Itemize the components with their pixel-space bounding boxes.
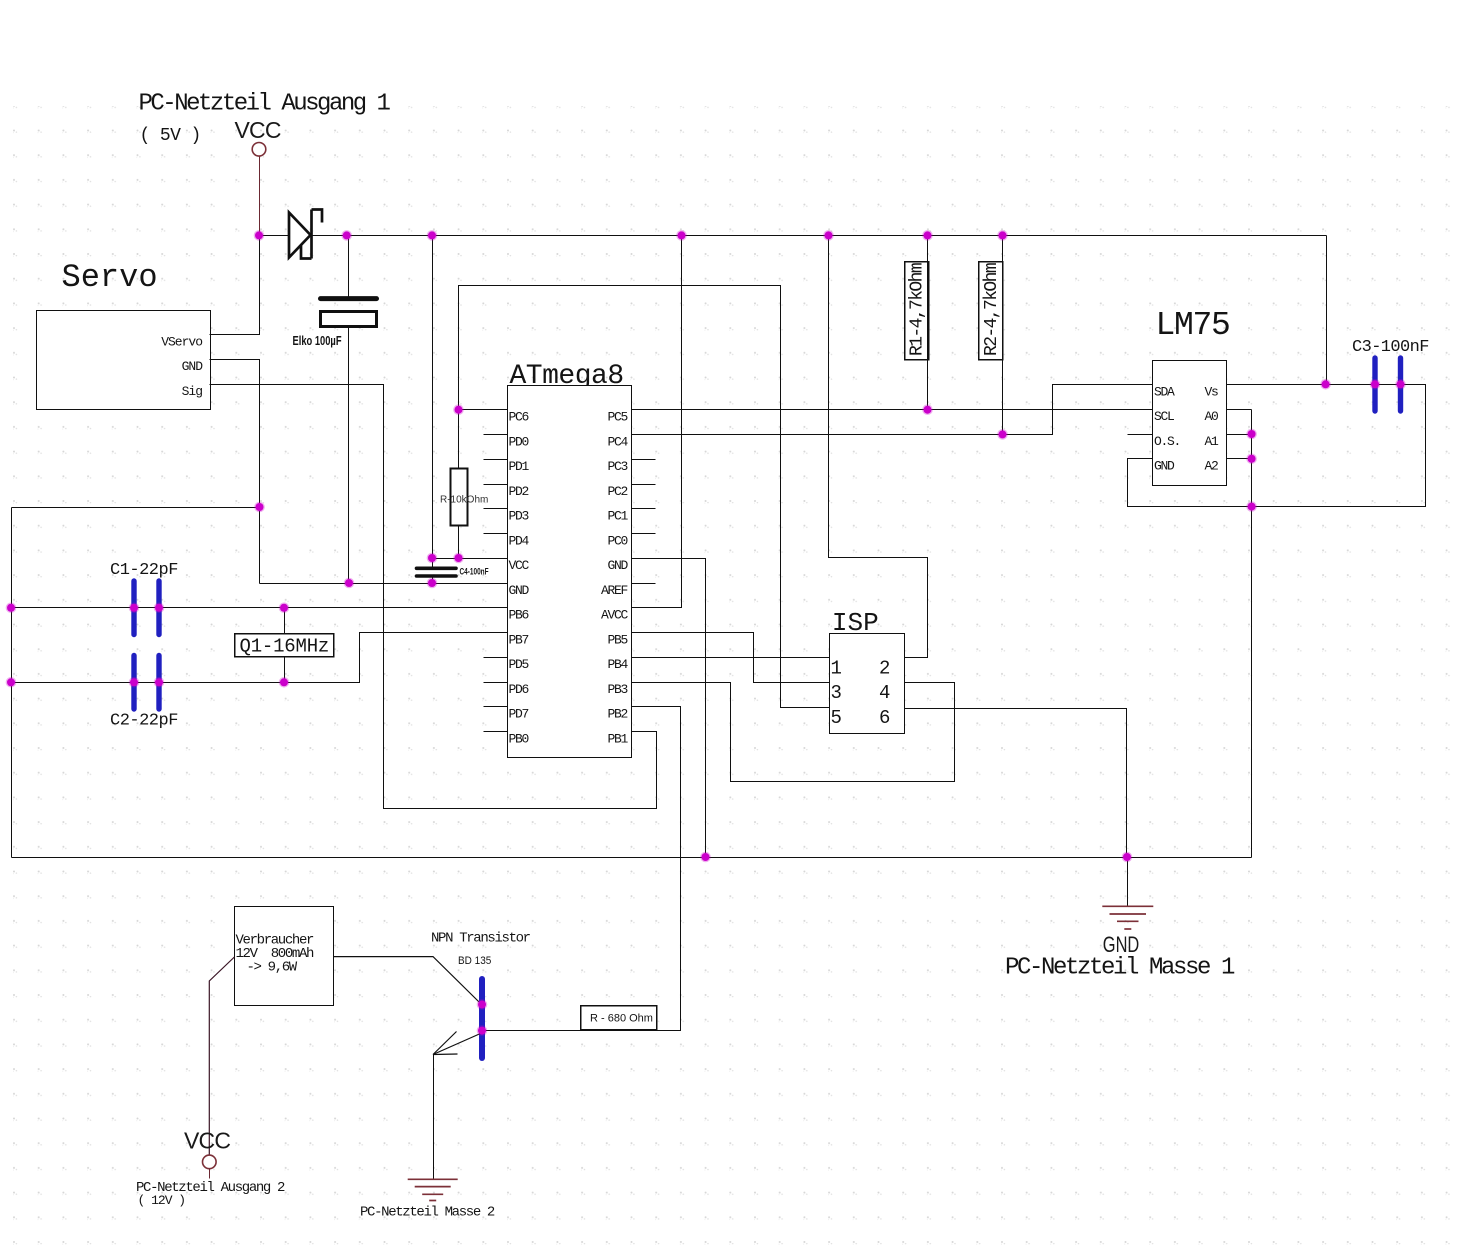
svg-text:6: 6 (879, 707, 890, 729)
pin PB5 stub (U1 right) (632, 632, 656, 634)
svg-text:PD7: PD7 (509, 707, 529, 722)
svg-text:SCL: SCL (1154, 409, 1174, 424)
wire LM75 GND loop through C3 (1128, 385, 1426, 507)
pin PB0 stub (U1 left) (484, 731, 508, 733)
junction A-chain/GND-loop (1246, 501, 1257, 512)
svg-text:PC1: PC1 (607, 509, 628, 524)
svg-text:PD2: PD2 (509, 484, 529, 499)
wire Verbraucher left to VCC2 (209, 957, 234, 1155)
svg-text:O.S.: O.S. (1154, 434, 1180, 449)
junction C2 left plate (129, 677, 140, 688)
junction AVCC/rail (676, 230, 687, 241)
svg-text:PD0: PD0 (509, 434, 529, 449)
svg-text:PB7: PB7 (509, 632, 529, 647)
svg-text:GND: GND (509, 583, 530, 598)
svg-text:R1-4,7kOhm: R1-4,7kOhm (908, 263, 928, 356)
svg-text:Servo: Servo (62, 259, 158, 296)
svg-text:2: 2 (879, 657, 890, 679)
wire SCL net PC5 to LM75 (632, 409, 1153, 411)
transistor Q1 emitter (433, 1033, 482, 1055)
svg-text:PC-Netzteil Ausgang 1: PC-Netzteil Ausgang 1 (139, 91, 391, 118)
wire ISP pin6 to GND rail (905, 709, 1127, 858)
pin PC1 stub (U1 right) (632, 508, 656, 510)
capacitor C2-22pF plates (131, 656, 136, 710)
wire PB5 to ISP pin3 (632, 633, 830, 683)
pin PC0 stub (U1 right) (632, 533, 656, 535)
junction U1-GND/rail (700, 852, 711, 863)
junction C3 right plate (1395, 379, 1406, 390)
svg-text:C2-22pF: C2-22pF (110, 712, 178, 731)
ground GND1 stub (1127, 858, 1129, 907)
wire SDA net PC4 to LM75 (632, 385, 1153, 435)
svg-text:C1-22pF: C1-22pF (110, 561, 178, 580)
svg-text:R2-4,7kOhm: R2-4,7kOhm (982, 263, 1002, 356)
wire emitter to GND2 (433, 1055, 435, 1179)
wire VServo to VCC rail (210, 236, 260, 335)
svg-text:PC-Netzteil Masse 2: PC-Netzteil Masse 2 (360, 1204, 495, 1220)
pin PC2 stub (U1 right) (632, 484, 656, 486)
junction R1/SCL (922, 404, 933, 415)
svg-text:LM75: LM75 (1156, 307, 1230, 344)
svg-text:PC-Netzteil Masse 1: PC-Netzteil Masse 1 (1005, 955, 1235, 982)
pin AVCC stub (U1 right) (632, 607, 656, 609)
wire VCC1 pin stub (259, 157, 261, 236)
pin A1 stub (U2) (1227, 434, 1252, 436)
power VCC2 circle (203, 1155, 217, 1169)
wire crystal top lead (284, 608, 286, 634)
svg-text:VCC: VCC (509, 558, 530, 573)
wire AVCC to VCC rail (656, 236, 682, 608)
power VCC2 pin stub (209, 1169, 211, 1179)
svg-text:Elko 100µF: Elko 100µF (293, 335, 342, 349)
pin PD7 stub (U1 left) (484, 706, 508, 708)
svg-text:-> 9,6W: -> 9,6W (247, 959, 298, 975)
wire PC6 net vertical (458, 410, 460, 469)
svg-text:AREF: AREF (601, 583, 628, 598)
svg-text:PB6: PB6 (509, 608, 529, 623)
svg-text:A0: A0 (1204, 409, 1218, 424)
pin PC4 stub (U1 right) (632, 434, 656, 436)
wire servo GND net (210, 360, 260, 584)
resistor R1 label frame (905, 262, 929, 360)
junction PC6/R-10k (453, 404, 464, 415)
svg-text:PC2: PC2 (607, 484, 627, 499)
svg-text:Sig: Sig (182, 384, 203, 399)
junction Elko-/GND line (344, 578, 355, 589)
junction R1/rail (922, 230, 933, 241)
svg-text:GND: GND (607, 558, 628, 573)
junction R2/SDA (997, 429, 1008, 440)
junction Q1 base (477, 1025, 488, 1036)
junction VCCrail/Vs (1320, 379, 1331, 390)
pin O.S. stub (U2) (1128, 434, 1153, 436)
wire PB1 to servo Sig (210, 385, 657, 809)
junction Elko/rail (341, 230, 352, 241)
pin A2 stub (U2) (1227, 458, 1252, 460)
resistor R2 label frame (979, 262, 1003, 360)
svg-text:PB3: PB3 (607, 682, 627, 697)
resistor R1 wire (927, 236, 929, 410)
pin PD2 stub (U1 left) (484, 484, 508, 486)
svg-text:SDA: SDA (1154, 384, 1175, 399)
IC U2 LM75 box (1153, 361, 1227, 486)
pin PC3 stub (U1 right) (632, 459, 656, 461)
pin PD1 stub (U1 left) (484, 459, 508, 461)
pin PB2 stub (U1 right) (632, 706, 656, 708)
pin PD4 stub (U1 left) (484, 533, 508, 535)
pin PB6 stub (U1 left) (484, 607, 508, 609)
pin AREF stub (U1 right) (632, 583, 656, 585)
svg-text:NPN Transistor: NPN Transistor (431, 930, 531, 946)
svg-text:PD1: PD1 (509, 459, 530, 474)
wire R-10kOhm bottom (458, 526, 460, 559)
pin GND stub (U1 left) (484, 583, 508, 585)
wire XTAL2 net (C2 line) (12, 633, 508, 683)
svg-text:AVCC: AVCC (601, 608, 629, 623)
wire diode anode (260, 235, 290, 237)
junction C4+/VCC line (427, 553, 438, 564)
capacitor C1-22pF plates (131, 581, 136, 635)
pin PD5 stub (U1 left) (484, 657, 508, 659)
svg-text:PB2: PB2 (607, 707, 627, 722)
svg-text:GND: GND (1154, 459, 1175, 474)
junction left-bus/XTAL1 (6, 602, 17, 613)
svg-text:C3-100nF: C3-100nF (1352, 338, 1429, 357)
svg-text:C4-100nF: C4-100nF (460, 566, 489, 577)
load module Verbraucher box (235, 907, 334, 1006)
svg-text:A2: A2 (1204, 459, 1218, 474)
ground GND2 symbol (408, 1179, 458, 1200)
wire PB2 to transistor base (483, 707, 681, 1031)
crystal Q1-16MHz box (235, 634, 334, 657)
junction A2 (1246, 453, 1257, 464)
capacitor C4 top lead (432, 559, 434, 567)
svg-text:Q1-16MHz: Q1-16MHz (240, 636, 330, 658)
wire XTAL1 net (C1 line) (12, 607, 508, 609)
wire Elko top (348, 236, 350, 297)
pin PB3 stub (U1 right) (632, 682, 656, 684)
pin PC6 stub (U1 left) (484, 409, 508, 411)
svg-text:4: 4 (879, 682, 890, 704)
svg-text:PC0: PC0 (607, 533, 627, 548)
capacitor C4 bottom lead (432, 578, 434, 584)
svg-text:5: 5 (831, 707, 842, 729)
svg-text:R-10kOhm: R-10kOhm (440, 494, 488, 505)
svg-text:A1: A1 (1204, 434, 1219, 449)
junction VCC-branch/rail (427, 230, 438, 241)
power VCC1 circle (252, 143, 266, 157)
resistor R-10kOhm body (451, 469, 468, 526)
wire collector from Verbraucher (334, 957, 482, 1005)
wire PC6 pin connect (459, 409, 508, 411)
ground GND1 symbol (1102, 906, 1153, 929)
junction C4-/GND line (427, 578, 438, 589)
pin GND stub (U1 right) (632, 558, 656, 560)
junction C1 left plate (129, 602, 140, 613)
pin PB4 stub (U1 right) (632, 657, 656, 659)
capacitor C4-100nF (417, 566, 457, 570)
svg-text:GND: GND (182, 359, 204, 374)
junction C3 left plate (1370, 379, 1381, 390)
wire GND rail (12, 857, 1252, 859)
capacitor C3-100nF plates (1372, 358, 1377, 411)
junction servoGND/left-bus (254, 502, 265, 513)
resistor R-680 box (581, 1006, 657, 1030)
svg-text:PC4: PC4 (607, 434, 628, 449)
junction ISP2/rail (823, 230, 834, 241)
svg-text:PB0: PB0 (509, 731, 529, 746)
IC U1 ATmega8 box (508, 386, 632, 758)
junction Q1 collector (477, 999, 488, 1010)
wire VCC rail (312, 235, 1327, 237)
svg-text:1: 1 (831, 657, 842, 679)
wire Elko bottom to GND line (348, 326, 350, 584)
diode D1 (Schottky) (289, 210, 322, 259)
svg-text:PD4: PD4 (509, 533, 530, 548)
wire PB3 to ISP pin4 (632, 683, 955, 782)
wire U1 GND right to rail (632, 559, 706, 858)
pin PB1 stub (U1 right) (632, 731, 656, 733)
svg-text:VServo: VServo (161, 334, 202, 349)
capacitor Elko 100uF (electrolytic) (321, 296, 377, 301)
wire PB4 to ISP pin1 (632, 657, 830, 659)
wire GND branch to left bus (12, 507, 260, 509)
junction R-10k/VCC line (453, 553, 464, 564)
wire crystal bottom lead (284, 657, 286, 683)
svg-text:PB4: PB4 (607, 657, 628, 672)
junction crystal/XTAL2 (279, 677, 290, 688)
junction VCC1/rail (254, 230, 265, 241)
junction C1 right plate (154, 602, 165, 613)
junction R2/rail (997, 230, 1008, 241)
wire ISP pin2 VCC net (829, 236, 928, 658)
svg-text:PC5: PC5 (607, 410, 627, 425)
junction crystal/XTAL1 (279, 602, 290, 613)
pin PD0 stub (U1 left) (484, 434, 508, 436)
svg-text:3: 3 (831, 682, 842, 704)
pin VCC stub (U1 left) (484, 558, 508, 560)
wire A0 A1 A2 chain to GND rail (1227, 409, 1252, 411)
svg-text:PD3: PD3 (509, 509, 529, 524)
wire RESET net to ISP pin5 (459, 286, 830, 708)
svg-text:Vs: Vs (1204, 384, 1218, 399)
junction GND1/rail (1122, 852, 1133, 863)
svg-text:BD 135: BD 135 (458, 954, 491, 967)
junction left-bus/XTAL2 (6, 677, 17, 688)
transistor Q1 base bar (479, 979, 485, 1058)
pin PC5 stub (U1 right) (632, 409, 656, 411)
wire VCC branch (432, 236, 434, 559)
svg-text:( 12V ): ( 12V ) (138, 1193, 186, 1208)
connector ISP box (830, 634, 905, 734)
svg-text:R - 680 Ohm: R - 680 Ohm (590, 1013, 653, 1025)
svg-text:PB5: PB5 (607, 632, 627, 647)
svg-text:VCC: VCC (235, 117, 281, 143)
pin PD6 stub (U1 left) (484, 682, 508, 684)
svg-text:PD6: PD6 (509, 682, 529, 697)
svg-text:VCC: VCC (184, 1128, 230, 1154)
svg-text:PC6: PC6 (509, 410, 529, 425)
svg-text:PD5: PD5 (509, 657, 529, 672)
svg-text:PC3: PC3 (607, 459, 627, 474)
svg-text:PB1: PB1 (607, 731, 628, 746)
pin PD3 stub (U1 left) (484, 508, 508, 510)
pin PB7 stub (U1 left) (484, 632, 508, 634)
servo module box (37, 311, 211, 410)
svg-text:( 5V ): ( 5V ) (140, 126, 201, 146)
junction A1 (1246, 429, 1257, 440)
resistor R2 wire (1002, 236, 1004, 435)
junction C2 right plate (154, 677, 165, 688)
